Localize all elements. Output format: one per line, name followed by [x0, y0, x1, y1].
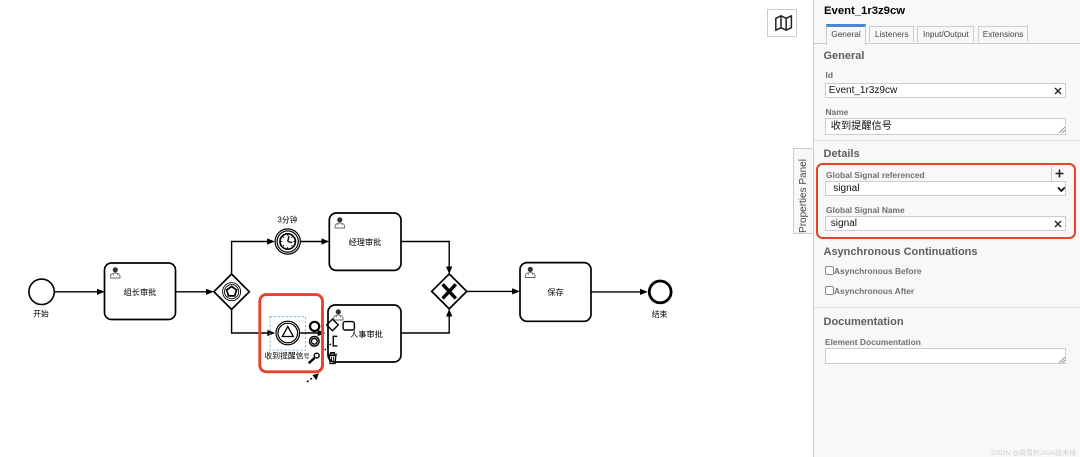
wire X gateway to task4 [467, 288, 520, 294]
tab Listeners [869, 26, 914, 42]
svg-text:结束: 结束 [652, 309, 668, 319]
svg-text:经理审批: 经理审批 [349, 237, 382, 247]
label Element Documentation [825, 337, 921, 347]
context pad: append task [343, 322, 354, 330]
timer label 3分钟 [278, 215, 298, 225]
svg-text:3分钟: 3分钟 [278, 215, 298, 225]
wire task1 to event gateway [176, 289, 214, 295]
wire task2 to X gateway [401, 242, 452, 275]
input Id [825, 83, 1067, 98]
tab Extensions [978, 26, 1029, 42]
properties panel toggle tab [793, 148, 814, 234]
signal label 收到提醒信号 [265, 350, 310, 360]
start event [29, 279, 54, 304]
context pad: global connect dashed arrow [307, 373, 319, 382]
task 人事审批 [328, 305, 401, 362]
event-based gateway [214, 274, 249, 309]
svg-text:组长审批: 组长审批 [124, 287, 157, 297]
tab Input/Output [917, 26, 974, 42]
red highlight rect on panel [816, 163, 1076, 238]
svg-text:收到提醒信号: 收到提醒信号 [265, 350, 310, 360]
clear x for Global Signal Name [1054, 220, 1062, 228]
timer intermediate event [275, 229, 300, 254]
select Global Signal referenced [825, 181, 1067, 196]
exclusive gateway X [432, 274, 467, 309]
user icon task4 [526, 267, 535, 278]
user icon task3 [334, 309, 343, 320]
textarea Name [825, 118, 1067, 135]
wire gateway down to signal event [232, 309, 276, 336]
user icon task1 [111, 267, 120, 278]
wire task4 to end event [591, 289, 648, 295]
signal intermediate event [276, 321, 300, 345]
resize handle doc [1058, 356, 1066, 364]
checkbox Asynchronous Before [825, 266, 834, 275]
clear x for Id [1054, 87, 1062, 95]
selection outline signal event [270, 317, 306, 351]
input Global Signal Name [825, 216, 1067, 231]
label Global Signal referenced [826, 170, 925, 180]
wire task3 to X gateway [401, 309, 452, 333]
label Id [826, 70, 833, 80]
section header General [824, 50, 865, 62]
section header Details [824, 148, 860, 160]
tab General (active) [826, 24, 866, 46]
svg-text:人事审批: 人事审批 [350, 329, 383, 339]
task 组长审批 [105, 263, 176, 320]
wire signal to task3 [300, 330, 325, 336]
tabs bottom border [814, 43, 1080, 44]
separator [814, 140, 1080, 141]
panel title [824, 5, 905, 17]
label Name [826, 107, 849, 117]
watermark [991, 447, 1076, 457]
context pad: append intermediate event [310, 337, 320, 347]
wire timer to task2 [300, 238, 329, 244]
context pad: wrench change type [309, 353, 319, 363]
properties panel [813, 0, 1080, 457]
textarea Element Documentation [825, 348, 1067, 364]
user icon task2 [335, 217, 344, 228]
plus button [1055, 169, 1064, 178]
select chevron [1057, 186, 1066, 194]
section header Asynchronous Continuations [824, 246, 978, 258]
wire start to task1 [55, 289, 105, 295]
separator [814, 307, 1080, 308]
task 经理审批 [329, 213, 401, 270]
task 保存 [520, 263, 591, 322]
svg-text:保存: 保存 [547, 287, 563, 297]
context pad: append end event [310, 322, 319, 331]
wire gateway up to timer [232, 238, 275, 274]
context pad: text annotation [333, 336, 337, 346]
context pad: append gateway [327, 319, 339, 331]
svg-text:开始: 开始 [33, 309, 49, 319]
minimap toggle button [767, 9, 797, 37]
red highlight rect on canvas [260, 295, 323, 372]
section header Documentation [824, 316, 904, 328]
checkbox Asynchronous After [825, 286, 834, 295]
context pad: trash delete [328, 353, 337, 364]
plus cell divider [1051, 166, 1052, 181]
context pad: association dotted [325, 343, 332, 350]
resize handle name [1058, 126, 1066, 134]
end label [652, 309, 668, 319]
label Global Signal Name [826, 205, 905, 215]
bpmn canvas [0, 0, 813, 457]
start label [33, 309, 49, 319]
end event [649, 281, 671, 303]
